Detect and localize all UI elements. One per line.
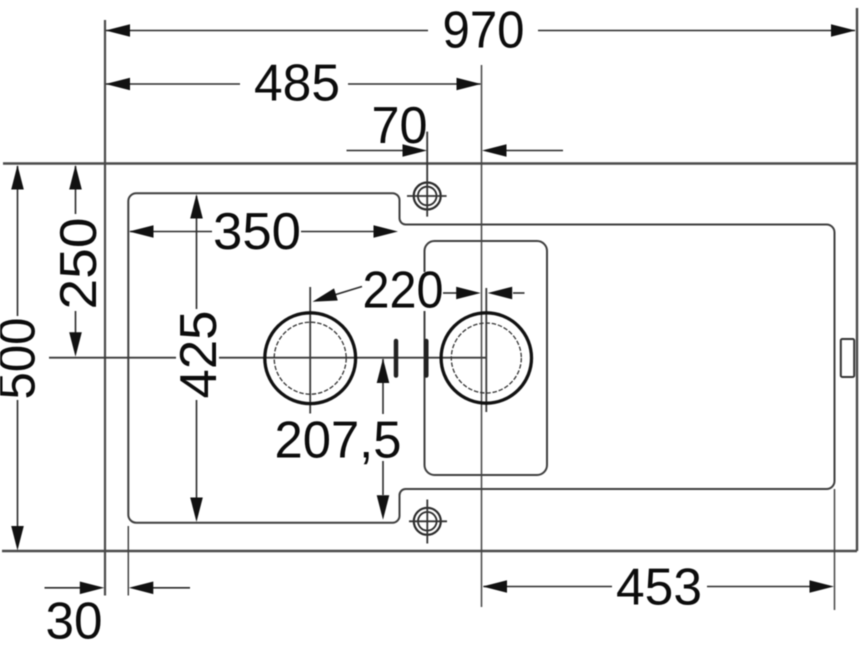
svg-text:970: 970 <box>443 2 525 60</box>
outer rim right edge <box>856 8 858 551</box>
drain circle 2 <box>441 313 531 403</box>
dim 207,5 <box>382 359 384 495</box>
svg-text:250: 250 <box>50 218 108 310</box>
dim 485 <box>106 83 481 85</box>
half bowl rect <box>425 241 548 475</box>
tap hole top <box>407 132 447 217</box>
horizontal centerline <box>49 357 486 359</box>
dim 453 <box>484 586 811 588</box>
drain circle 1 <box>265 313 356 404</box>
svg-text:350: 350 <box>213 203 301 261</box>
dim 425 <box>196 196 198 518</box>
extension line below bowl left <box>127 526 129 596</box>
svg-text:485: 485 <box>254 55 340 113</box>
dim 500 <box>17 166 19 546</box>
svg-text:70: 70 <box>372 97 428 155</box>
sink inner outline (bowl + drainer) <box>128 193 834 523</box>
svg-text:425: 425 <box>170 311 228 399</box>
dim 220 <box>360 272 446 311</box>
dim 250 <box>75 166 77 352</box>
circle2 vertical centerline <box>485 288 487 412</box>
extension line x=481.5 <box>481 65 483 607</box>
tap hole bottom <box>409 500 447 544</box>
divider tick mark right <box>424 341 429 376</box>
svg-text:500: 500 <box>0 318 47 400</box>
outer rim left edge <box>104 20 106 596</box>
extension line x=834.5 below drainer <box>834 489 836 610</box>
outer rim top edge <box>3 162 857 164</box>
dim 70 <box>347 150 564 152</box>
dim 970 <box>106 30 855 32</box>
svg-text:220: 220 <box>363 262 444 320</box>
dim 30 <box>45 587 191 589</box>
svg-text:453: 453 <box>616 559 702 617</box>
svg-text:207,5: 207,5 <box>275 412 402 470</box>
overflow slot <box>841 339 854 377</box>
outer rim bottom edge <box>2 550 857 552</box>
dim 350 <box>130 231 375 233</box>
divider tick mark left <box>394 341 399 376</box>
svg-text:30: 30 <box>46 593 103 651</box>
circle1 vertical centerline <box>309 287 311 414</box>
